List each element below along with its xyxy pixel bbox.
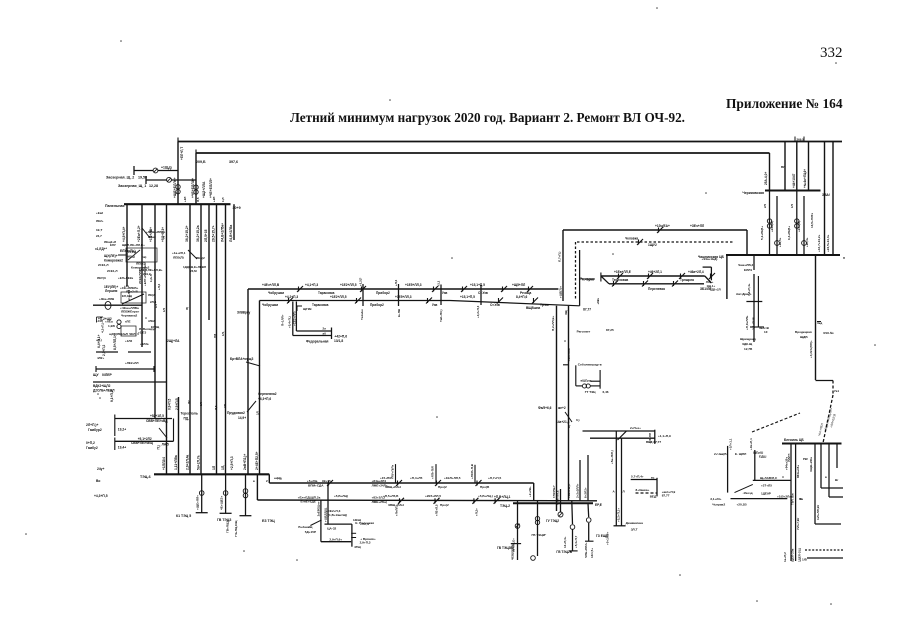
svg-text:2аЕ9ЕЩч+: 2аЕ9ЕЩч+: [316, 501, 320, 516]
svg-text:1к5+ЛЛ,Вт: 1к5+ЛЛ,Вт: [816, 504, 820, 520]
svg-text:+П,5+Л5,В: +П,5+Л5,В: [383, 494, 399, 498]
svg-text:ЩУ(ЛЕ)+: ЩУ(ЛЕ)+: [104, 254, 118, 258]
svg-text:+№4а+ЛЦ4+: +№4а+ЛЦ4+: [803, 169, 807, 188]
svg-text:Л4,В+2Л5а: Л4,В+2Л5а: [229, 225, 233, 242]
svg-text:ЗЧХ-№: ЗЧХ-№: [823, 331, 834, 335]
svg-text:+ЩЕ(?)+: +ЩЕ(?)+: [559, 286, 563, 298]
svg-text:ВДК2+ЩЛ2: ВДК2+ЩЛ2: [93, 384, 111, 388]
svg-text:+1Е2+ЛЛ,5: +1Е2+ЛЛ,5: [340, 283, 357, 287]
svg-text:+15,1+П,5: +15,1+П,5: [470, 283, 485, 287]
svg-text:+1а+2Л,1: +1а+2Л,1: [172, 251, 186, 255]
svg-text:+16,7+24,2+: +16,7+24,2+: [817, 234, 821, 252]
svg-text:ЩДВ: ЩДВ: [800, 335, 808, 339]
svg-text:332: 332: [820, 45, 843, 61]
svg-text:ЦА-32: ЦА-32: [327, 527, 336, 531]
svg-text:ВЕД: ВЕД: [650, 494, 657, 498]
svg-text:ГВ ТЭЦ2Г: ГВ ТЭЦ2Г: [532, 533, 547, 537]
svg-text:+5,2+П,1+: +5,2+П,1+: [617, 508, 621, 522]
svg-text:+24а(В): +24а(В): [797, 221, 801, 232]
svg-text:1,11+ЛВа: 1,11+ЛВа: [174, 455, 178, 470]
svg-text:5Д+15Р: 5Д+15Р: [305, 530, 316, 534]
svg-text:Ст.Узв: Ст.Узв: [478, 291, 488, 295]
svg-text:4,2+П,): 4,2+П,): [101, 323, 105, 333]
svg-text:+20,1В: +20,1В: [737, 503, 748, 507]
svg-text:+4,2+П,3: +4,2+П,3: [285, 295, 298, 299]
svg-text:+1Щд): +1Щд): [161, 166, 172, 170]
svg-text:2: 2: [266, 479, 268, 483]
svg-text:+П,2+Щ2: +П,2+Щ2: [98, 317, 112, 321]
svg-text:2,9+П,3: 2,9+П,3: [360, 541, 371, 545]
svg-text:+1Л2а: +1Л2а: [140, 342, 149, 346]
svg-text:+ЧЕ+ЕЛЛЛ+: +ЧЕ+ЕЛЛЛ+: [209, 178, 213, 198]
svg-text:+0,22А(ЛЛ)+: +0,22А(ЛЛ)+: [809, 340, 813, 358]
svg-text:ЧЕВ(СЕВЩ: ЧЕВ(СЕВЩ: [511, 544, 515, 560]
svg-text:1Л,: 1Л,: [221, 331, 225, 336]
svg-text:1/3+ЛЛ: 1/3+ЛЛ: [648, 433, 652, 443]
svg-text:3,1+23+: 3,1+23+: [710, 497, 722, 501]
svg-text:ГТ ТЭЦ: ГТ ТЭЦ: [585, 390, 597, 394]
svg-text:2,1+Л,2: 2,1+Л,2: [127, 289, 131, 300]
svg-text:+ЧЕ+ЕЛЛА+: +ЧЕ+ЕЛЛА+: [191, 178, 195, 198]
svg-text:ЗДК-Щ: ЗДК-Щ: [742, 342, 753, 346]
svg-text:Чсправ2: Чсправ2: [712, 503, 725, 507]
svg-text:8,5+ЛЛ,1+: 8,5+ЛЛ,1+: [113, 334, 117, 350]
svg-text:2Щ)+ЛА: 2Щ)+ЛА: [167, 339, 180, 343]
svg-text:+1Б+ЛВ)+: +1Б+ЛВ)+: [567, 483, 571, 498]
svg-text:Щ+5АВ/Л,С: Щ+5АВ/Л,С: [760, 476, 778, 480]
svg-text:Про(В: Про(В: [480, 485, 490, 489]
svg-text:БртВЛА+мрщЗ: БртВЛА+мрщЗ: [230, 357, 253, 361]
svg-text:Гамбу2: Гамбу2: [86, 446, 98, 450]
svg-text:Летний минимум нагрузок 2020 г: Летний минимум нагрузок 2020 год. Вариан…: [290, 110, 685, 125]
svg-text:па): па): [142, 255, 146, 259]
svg-text:ЗЩ: ЗЩ: [564, 310, 568, 315]
svg-text:13/1,8: 13/1,8: [334, 339, 343, 343]
svg-text:+5+1Л,5+: +5+1Л,5+: [605, 532, 609, 545]
svg-text:ВЛ: ВЛ: [781, 165, 785, 169]
svg-text:Л: Л: [623, 490, 625, 494]
svg-text:+6Еч: +6Еч: [596, 297, 600, 304]
svg-text:+П,4+Л5: +П,4+Л5: [410, 476, 423, 480]
svg-text:гЛЕ: гЛЕ: [125, 320, 131, 324]
svg-text:87,25: 87,25: [606, 328, 614, 332]
svg-text:+2а: +2а: [124, 284, 129, 288]
svg-text:+П,): +П,): [96, 338, 102, 342]
svg-text:С): С): [567, 425, 571, 428]
svg-text:Узв: Узв: [432, 303, 437, 307]
svg-text:2,3+П,2: 2,3+П,2: [102, 345, 106, 356]
svg-text:+4,5+П,4+: +4,5+П,4+: [122, 226, 126, 242]
svg-text:12,28: 12,28: [149, 184, 158, 188]
svg-text:РВ!: РВ!: [803, 457, 808, 461]
svg-text:19,2+: 19,2+: [118, 428, 126, 432]
svg-text:6+2Л2+: 6+2Л2+: [584, 487, 588, 498]
svg-text:+44а: +44а: [274, 477, 282, 481]
svg-text:1а+П,2: 1а+П,2: [783, 552, 787, 562]
svg-text:+Л,7+П,5: +Л,7+П,5: [488, 476, 501, 480]
svg-text:2Л: 2Л: [763, 204, 767, 208]
svg-text:ЕЗ ТЭЦ: ЕЗ ТЭЦ: [262, 519, 275, 523]
svg-text:Е+ПВ: Е+ПВ: [397, 308, 401, 317]
svg-text:ВПМ+СДА: ВПМ+СДА: [308, 483, 324, 487]
svg-text:Зкд: Зкд: [817, 321, 822, 325]
svg-text:13/1,5+: 13/1,5+: [590, 548, 594, 558]
svg-text:аб: аб: [323, 331, 327, 335]
svg-text:+1Е5+ЛЛ,3: +1Е5+ЛЛ,3: [395, 295, 412, 299]
svg-text:(1,Б+ЗантЩ): (1,Б+ЗантЩ): [328, 513, 347, 517]
svg-text:1Л,: 1Л,: [221, 465, 225, 470]
svg-text:ВЩВшна: ВЩВшна: [526, 306, 540, 310]
svg-text:87,77: 87,77: [662, 493, 670, 497]
svg-text:+1Еа+ЛЛ,Е: +1Еа+ЛЛ,Е: [614, 270, 631, 274]
svg-text:4ГЩ: 4ГЩ: [354, 545, 361, 549]
svg-text:+ЛСЛ+П,В: +ЛСЛ+П,В: [470, 463, 474, 479]
svg-text:Та6+П3,): Та6+П3,): [439, 309, 443, 322]
svg-text:Тереховка: Тереховка: [612, 278, 628, 282]
svg-text:+22,5+24,3+: +22,5+24,3+: [826, 234, 830, 252]
svg-text:2Л,5+15: 2Л,5+15: [204, 229, 208, 242]
svg-text:24,7: 24,7: [96, 234, 102, 238]
svg-text:2СЕ1(ЛЛ2): 2СЕ1(ЛЛ2): [138, 269, 142, 284]
svg-text:1а: 1а: [800, 497, 804, 501]
svg-text:19,58: 19,58: [138, 176, 147, 180]
svg-text:+1Е,5+: +1Е,5+: [778, 237, 782, 247]
svg-text:36,2+15,2а: 36,2+15,2а: [196, 225, 200, 242]
svg-text:+15+П/Л: +15+П/Л: [380, 476, 392, 480]
svg-text:Перелевка: Перелевка: [648, 287, 665, 291]
svg-text:СВВ+ЛЕУчВД: СВВ+ЛЕУчВД: [146, 419, 168, 423]
svg-text:+2Л,4+: +2Л,4+: [805, 237, 809, 247]
svg-text:+Л+ЛЛ,: +Л+ЛЛ,: [395, 506, 399, 516]
svg-text:Чкловка: Чкловка: [625, 237, 638, 241]
svg-text:Авт.Дрв2+: Авт.Дрв2+: [736, 292, 752, 296]
svg-text:397,6: 397,6: [229, 160, 238, 164]
svg-text:ЛА,5: ЛА,5: [162, 442, 169, 446]
svg-text:В+2анкЩ: В+2анкЩ: [298, 525, 313, 529]
svg-text:864а+15+: 864а+15+: [796, 465, 800, 478]
svg-text:ГЛУ/ЛБ?: ГЛУ/ЛБ?: [552, 485, 556, 498]
svg-text:ГУ ТЭЦ2: ГУ ТЭЦ2: [546, 519, 559, 523]
svg-text:1Л: 1Л: [212, 465, 216, 470]
svg-text:П,): П,): [157, 445, 161, 449]
svg-text:Динамична: Динамична: [626, 521, 644, 525]
svg-text:+ЩЕ+ЕЛЛч+: +ЩЕ+ЕЛЛч+: [173, 177, 177, 198]
svg-text:ЕДШ: ЕДШ: [759, 455, 766, 459]
svg-text:4Е+ЩЕ2+: 4Е+ЩЕ2+: [220, 495, 224, 510]
svg-text:+15,1+П,5: +15,1+П,5: [460, 295, 475, 299]
svg-text:269,5: 269,5: [797, 138, 805, 142]
svg-text:14,9+: 14,9+: [238, 416, 246, 420]
svg-text:ЛЕ(2: ЛЕ(2: [148, 293, 155, 297]
svg-text:х1,ЕД+*: х1,ЕД+*: [95, 247, 108, 251]
svg-text:2,9+П,6+: 2,9+П,6+: [329, 538, 342, 542]
svg-text:13+П,4+: 13+П,4+: [563, 536, 567, 548]
svg-text:Во: Во: [96, 479, 100, 483]
svg-text:Гамбур2: Гамбур2: [88, 428, 102, 432]
svg-text:Прибор2: Прибор2: [370, 303, 384, 307]
svg-text:П,2+ЛЛ,Е+: П,2+ЛЛ,Е+: [551, 316, 555, 331]
svg-text:1Л: 1Л: [199, 402, 203, 406]
svg-text:ЩУ: ЩУ: [93, 373, 99, 377]
svg-text:Сергиевна2: Сергиевна2: [258, 392, 277, 396]
svg-text:ЕЛЛ1: ЕЛЛ1: [744, 268, 752, 272]
svg-text:+ЛЕЩ+ЛЛВ+: +ЛЕЩ+ЛЛВ+: [146, 230, 166, 234]
svg-text:ЩЕЛ,ЛЕ+ЛЛ,В+: ЩЕЛ,ЛЕ+ЛЛ,В+: [122, 243, 145, 247]
svg-text:А: А: [613, 490, 616, 494]
svg-text:ТЭЦ-2: ТЭЦ-2: [500, 504, 510, 508]
svg-text:9,1+П,2: 9,1+П,2: [110, 390, 114, 402]
svg-text:19,4+: 19,4+: [118, 445, 126, 449]
svg-text:Фа/5+6,6: Фа/5+6,6: [538, 406, 552, 410]
svg-text:+ЕЛ+ЛЕ2а: +ЕЛ+ЛЕ2а: [118, 276, 133, 280]
svg-text:х1,ЕД: х1,ЕД: [128, 250, 136, 254]
svg-text:ЛЕВ(Л): ЛЕВ(Л): [173, 256, 184, 260]
svg-text:К1 ТЭЦ 5: К1 ТЭЦ 5: [176, 514, 191, 518]
svg-text:Е. Полоцкая: Е. Полоцкая: [355, 521, 374, 525]
svg-text:+ЕЛ+Л,Т: +ЕЛ+Л,Т: [180, 147, 184, 160]
svg-text:2Л: 2Л: [223, 404, 227, 408]
svg-text:ЗЛ,Т: ЗЛ,Т: [631, 528, 638, 532]
svg-text:2+2x3ЛЛ+: 2+2x3ЛЛ+: [576, 483, 580, 498]
svg-text:+П,В+ЛЦ,1: +П,В+ЛЦ,1: [494, 495, 511, 499]
svg-text:Л): Л): [185, 307, 189, 310]
svg-text:Трлщкла: Трлщкла: [680, 278, 694, 282]
svg-text:ЗВЩ+ЛАН: ЗВЩ+ЛАН: [385, 485, 402, 489]
svg-text:2+4Е+П2,5+: 2+4Е+П2,5+: [255, 451, 259, 470]
svg-text:36,2+15,2+: 36,2+15,2+: [185, 225, 189, 242]
svg-text:Л4,В+2Л5а+: Л4,В+2Л5а+: [221, 223, 225, 242]
svg-text:Та1а1м: Та1а1м: [360, 309, 364, 320]
svg-text:2вВ+П2,)+: 2вВ+П2,)+: [243, 454, 247, 470]
svg-text:+ЛЕ2+ЛЛ: +ЛЕ2+ЛЛ: [125, 361, 139, 365]
svg-text:29,5+15,7+: 29,5+15,7+: [212, 225, 216, 242]
svg-text:Прибор2: Прибор2: [376, 291, 390, 295]
svg-text:12:: 12:: [764, 330, 768, 334]
svg-text:+П,9+ЛЛ+: +П,9+ЛЛ+: [745, 315, 749, 330]
svg-text:Л,5: Л,5: [214, 405, 218, 410]
svg-text:ГЧ+ЛЦ,СЩ: ГЧ+ЛЦ,СЩ: [234, 520, 238, 537]
svg-text:Чернавка2: Чернавка2: [121, 313, 138, 317]
svg-text:ЛЕУ(б: ЛЕУ(б: [97, 276, 106, 280]
svg-text:+2Л: +2Л: [212, 197, 216, 202]
svg-text:ЕЛ(Щ: ЕЛ(Щ: [151, 325, 160, 329]
svg-text:+46а+2Л,4: +46а+2Л,4: [688, 270, 704, 274]
svg-text:+46+2Л,1: +46+2Л,1: [648, 270, 662, 274]
svg-text:+5,В+ЛЦ): +5,В+ЛЦ): [334, 494, 348, 498]
svg-text:6,46: 6,46: [603, 390, 609, 394]
svg-text:7а1: 7а1: [834, 389, 839, 393]
svg-text:ЛЕа(2: ЛЕа(2: [196, 256, 205, 260]
svg-text:+1,1+П,9: +1,1+П,9: [658, 434, 671, 438]
svg-text:2+Чва(Б: 2+Чва(Б: [714, 452, 727, 456]
svg-text:1ДЕ9Р: 1ДЕ9Р: [761, 492, 771, 496]
svg-text:Тарасовка: Тарасовка: [312, 303, 329, 307]
svg-text:Тересполь: Тересполь: [181, 412, 198, 416]
svg-text:+Л,4: +Л,4: [394, 279, 398, 286]
svg-text:Бродецкая: Бродецкая: [795, 330, 812, 334]
svg-text:Панельная: Панельная: [105, 204, 125, 208]
svg-text:Чашникская ЦБ: Чашникская ЦБ: [698, 255, 725, 259]
svg-text:2+П+к+: 2+П+к+: [630, 426, 641, 430]
svg-text:в: в: [825, 475, 827, 479]
svg-text:8,4+П,6: 8,4+П,6: [516, 295, 527, 299]
svg-text:ЛЕа2: ЛЕа2: [148, 235, 156, 239]
svg-text:Чобрушки: Чобрушки: [262, 303, 278, 307]
svg-text:же+2: же+2: [557, 406, 566, 410]
svg-text:Рагсовет: Рагсовет: [577, 329, 591, 333]
svg-text:2СЕ1,Л: 2СЕ1,Л: [98, 263, 108, 267]
svg-text:щХВ(ЛЕ)2аЛ: щХВ(ЛЕ)2аЛ: [109, 332, 128, 336]
svg-text:Про(2: Про(2: [438, 485, 447, 489]
svg-text:+2Е5+ЛЛ,5: +2Е5+ЛЛ,5: [425, 494, 441, 498]
svg-text:+5а+П/Л,): +5а+П/Л,): [610, 450, 614, 464]
svg-text:+2Еа+Л,2+: +2Еа+Л,2+: [137, 225, 141, 242]
svg-text:+Щ2+ЛЛА: +Щ2+ЛЛА: [202, 181, 206, 198]
svg-text:+2+2В+: +2+2В+: [528, 486, 532, 497]
svg-text:1ЩУ2: 1ЩУ2: [648, 243, 657, 247]
svg-text:Чаш+ЛВ,2: Чаш+ЛВ,2: [738, 263, 754, 267]
svg-text:+52+1Л,5: +52+1Л,5: [150, 414, 164, 418]
svg-text:5,2+ЛЦ5+: 5,2+ЛЦ5+: [760, 226, 764, 240]
svg-text:Узв: Узв: [442, 291, 447, 295]
svg-text:2Л,4: 2Л,4: [150, 300, 157, 304]
svg-text:+1Е+Л,1: +1Е+Л,1: [749, 438, 753, 450]
svg-text:2Л+П,)+: 2Л+П,)+: [86, 423, 98, 427]
svg-text:гЛЕ2: гЛЕ2: [148, 319, 155, 323]
svg-text:Приложение № 164: Приложение № 164: [726, 96, 843, 111]
svg-text:Вг: Вг: [835, 478, 839, 482]
svg-text:0,): 0,): [576, 418, 580, 422]
svg-text:+27+Л5: +27+Л5: [761, 484, 772, 488]
svg-text:+ЗЕч+ЛЛ: +ЗЕч+ЛЛ: [690, 224, 705, 228]
svg-text:87,77: 87,77: [583, 308, 591, 312]
svg-text:1Л: 1Л: [154, 304, 158, 308]
svg-text:Федоральная: Федоральная: [306, 340, 329, 344]
svg-text:+ЩЕ+ЛЛ+: +ЩЕ+ЛЛ+: [196, 495, 200, 510]
svg-text:+Л,2+: +Л,2+: [475, 508, 479, 516]
svg-text:+1Е5+ЛЛ,3: +1Е5+ЛЛ,3: [405, 283, 422, 287]
svg-text:+94а+15+: +94а+15+: [785, 457, 789, 470]
svg-text:4Л2+: 4Л2+: [97, 356, 104, 360]
svg-text:ЛЕ2+: ЛЕ2+: [96, 219, 104, 223]
svg-text:+4Еа+ЛЛВ: +4Еа+ЛЛВ: [99, 297, 115, 301]
svg-text:+1Л: +1Л: [183, 197, 187, 202]
svg-text:+1,2(?: +1,2(?: [359, 277, 363, 286]
svg-text:+3,2+П,3: +3,2+П,3: [476, 305, 480, 318]
svg-text:Чериковская: Чериковская: [742, 191, 764, 195]
svg-text:Про(2: Про(2: [440, 503, 449, 507]
svg-text:+4,1+П,3: +4,1+П,3: [305, 283, 318, 287]
svg-text:Заозерная_Щ_1: Заозерная_Щ_1: [118, 184, 146, 188]
svg-text:+1Л+1,1: +1Л+1,1: [729, 438, 733, 450]
svg-text:25А-4,0+: 25А-4,0+: [764, 172, 768, 185]
svg-text:1Л: 1Л: [162, 308, 166, 312]
svg-text:+1ЛЛ2/4: +1ЛЛ2/4: [162, 457, 166, 470]
svg-text:0,9+П,5: 0,9+П,5: [168, 399, 172, 410]
svg-text:24у+: 24у+: [97, 467, 105, 471]
svg-text:Бегомль ЦБ: Бегомль ЦБ: [784, 438, 804, 442]
svg-text:ЗВА!: ЗВА!: [822, 193, 830, 197]
svg-text:23,М: 23,М: [190, 269, 197, 273]
svg-text:ЗгВВрку: ЗгВВрку: [237, 311, 250, 315]
svg-text:+5,В+2Ла: +5,В+2Ла: [777, 495, 791, 499]
svg-text:+24а(В): +24а(В): [770, 221, 774, 232]
svg-text:Речицкая: Речицкая: [580, 277, 595, 281]
svg-text:ЕР,Е: ЕР,Е: [595, 503, 602, 507]
svg-text:ЛЕщ2+Л: ЛЕщ2+Л: [104, 240, 116, 244]
svg-text:ТЭЦ-6: ТЭЦ-6: [140, 475, 151, 479]
svg-text:+2,5+П,3: +2,5+П,3: [230, 456, 234, 470]
svg-text:СВВ+ЛЕУчЕщ: СВВ+ЛЕУчЕщ: [131, 441, 153, 445]
svg-text:ПД,: ПД,: [184, 416, 190, 420]
svg-text:Соболевград+в: Соболевград+в: [578, 362, 602, 366]
svg-text:Тр-во: Тр-во: [540, 303, 549, 307]
svg-text:П+1ЛЛ+: П+1ЛЛ+: [281, 314, 285, 326]
svg-text:16,5+П/Лч: 16,5+П/Лч: [810, 213, 814, 228]
svg-text:+1Л2: +1Л2: [125, 339, 133, 343]
svg-text:Чобрушки: Чобрушки: [268, 291, 284, 295]
svg-text:5в+2Л,7а: 5в+2Л,7а: [197, 455, 201, 470]
svg-text:+Щ5+ЛЛ: +Щ5+ЛЛ: [512, 283, 526, 287]
svg-text:Л2: Л2: [187, 400, 191, 404]
svg-text:0/ЛЕР: 0/ЛЕР: [102, 373, 112, 377]
svg-text:2СЕ1,Л: 2СЕ1,Л: [107, 269, 117, 273]
svg-text:+ЛП+П/Л: +ЛП+П/Л: [431, 466, 435, 479]
svg-text:+Л,4: +Л,4: [157, 283, 161, 290]
svg-text:1,2+П: 1,2+П: [149, 274, 153, 282]
svg-text:+Еа2: +Еа2: [96, 211, 103, 215]
svg-text:2,9+2Л,4а: 2,9+2Л,4а: [186, 455, 190, 470]
svg-text:1/Б: 1/Б: [802, 558, 808, 562]
svg-text:Е. ЩЛЛ: Е. ЩЛЛ: [735, 452, 746, 456]
svg-text:1,Л: 1,Л: [221, 198, 225, 202]
svg-text:+1ЕЛ+ЛЛ,5: +1ЕЛ+ЛЛ,5: [444, 476, 461, 480]
svg-text:12,7В: 12,7В: [744, 347, 753, 351]
svg-text:1Л: 1Л: [790, 204, 794, 208]
svg-text:+СЕ2+ЛЛ): +СЕ2+ЛЛ): [292, 311, 296, 326]
svg-text:вс: вс: [651, 476, 655, 480]
svg-text:+4Еч+ЛЛ,В: +4Еч+ЛЛ,В: [262, 283, 280, 287]
svg-text:н: н: [843, 256, 845, 260]
svg-text:+1Л+ЛЛ6: +1Л+ЛЛ6: [567, 348, 571, 361]
svg-text:вЩЕрщ: вЩЕрщ: [581, 379, 592, 383]
svg-text:+4,3+П,5: +4,3+П,5: [94, 494, 108, 498]
svg-text:2,3+ЛЧВ: 2,3+ЛЧВ: [752, 317, 756, 330]
svg-text:2Д5+2Л: 2Д5+2Л: [710, 288, 721, 292]
svg-text:ЩЕЛ-20в: ЩЕЛ-20в: [791, 549, 795, 562]
svg-text:6,3+ЛЦ5+: 6,3+ЛЦ5+: [787, 226, 791, 240]
svg-text:209,Б: 209,Б: [196, 160, 206, 164]
svg-text:ЗБ1/ЛВ: ЗБ1/ЛВ: [700, 287, 712, 291]
svg-text:+44+1047: +44+1047: [792, 173, 796, 188]
svg-text:в: в: [253, 479, 255, 483]
svg-text:14а+21,4: 14а+21,4: [556, 420, 570, 424]
svg-text:ГВ+ЛЦЗ: ГВ+ЛЦЗ: [226, 521, 230, 533]
svg-text:ПЛ: ПЛ: [213, 334, 217, 338]
svg-text:Лершня: Лершня: [105, 289, 118, 293]
svg-text:8+3анка+: 8+3анка+: [636, 488, 650, 492]
svg-text:1ДЕЛ-2Щ: 1ДЕЛ-2Щ: [798, 547, 802, 562]
svg-text:+вк1+П,9: +вк1+П,9: [662, 490, 676, 494]
svg-text:2,5+П,В: 2,5+П,В: [175, 398, 179, 410]
svg-text:ЗЩВ+2Фа: ЗЩВ+2Фа: [809, 457, 813, 472]
svg-text:+Л2+Л,5: +Л2+Л,5: [435, 504, 439, 516]
svg-text:+5,4+П,): +5,4+П,): [288, 316, 292, 328]
svg-text:Прудовая2: Прудовая2: [227, 411, 245, 415]
svg-text:Л,5: Л,5: [196, 197, 200, 202]
svg-text:Щркщрщд: Щркщрщд: [740, 337, 756, 341]
svg-text:+1Е2+ЛЛ,5: +1Е2+ЛЛ,5: [330, 295, 347, 299]
